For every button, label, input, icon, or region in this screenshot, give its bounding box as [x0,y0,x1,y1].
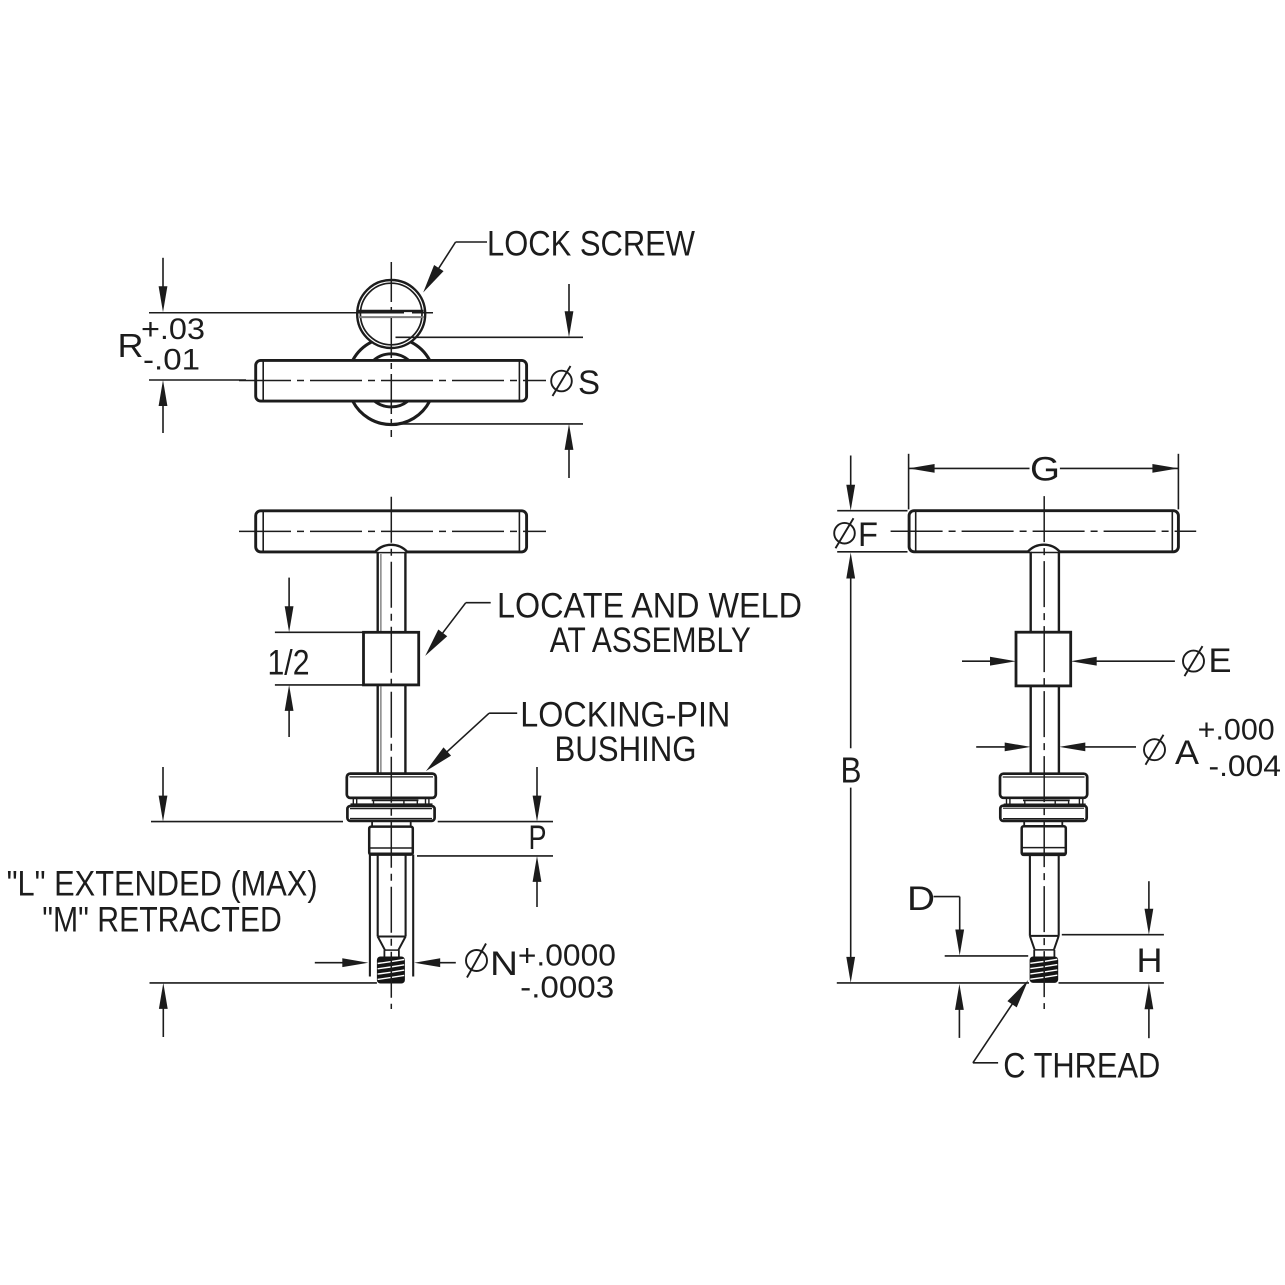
A dimension right arrow [1059,743,1085,752]
F dimension upper arrow [846,485,855,511]
shaft left edge (right view) [1029,686,1031,774]
dimension S lower extension line [395,423,583,425]
collar neck left tick (right view) [1023,821,1025,826]
H dimension lower arrow [1145,983,1154,1009]
bushing top flange (front view) [347,774,436,798]
collar (front view) [369,827,413,855]
locking-pin bushing leader arrowhead [422,747,451,775]
dimension 1/2 upper extension line [275,631,364,633]
sleeve left edge (front view) [369,855,371,977]
sleeve right edge (front view) [412,855,414,977]
svg-text:+.0000: +.0000 [518,938,616,973]
shaft left edge (front view) [377,685,379,774]
lock screw slot lower line [359,316,424,318]
pin taper right (right view) [1054,936,1059,950]
svg-text:B: B [841,750,862,791]
neck right edge (right view) [1058,552,1060,632]
mount plane extension line left [151,821,343,823]
collar neck left tick [371,821,373,827]
pin right edge (front view) [405,855,407,937]
handle bar left end cap (front view) [262,512,264,551]
locking-pin bushing leader [489,712,517,714]
G dimension right extension line [1177,454,1179,510]
D dimension upper extension line [945,955,1028,957]
L dimension lower arrow [159,983,168,1009]
bushing top flange inner edge [350,776,434,778]
svg-text:LOCKING-PIN: LOCKING-PIN [520,696,730,735]
lock screw leader line [456,241,487,243]
svg-text:1/2: 1/2 [268,644,310,683]
top view vertical centerline [390,262,392,437]
handle bar (top view) [256,360,527,401]
pin taper left (front view) [378,937,385,950]
front view vertical centerline [390,497,392,1009]
svg-text:BUSHING: BUSHING [555,730,697,769]
collar neck right tick [410,821,412,827]
collar chamfer lines [370,847,412,849]
bottom baseline (front view) [150,982,377,984]
F dimension diameter symbol [834,523,855,544]
svg-text:A: A [1175,734,1199,772]
pin tip left edge (front view) [383,950,385,956]
neck left edge (right view) [1029,552,1031,632]
bushing lower ring inner lines (right view) [1003,807,1084,809]
E dimension right arrow [1071,657,1097,666]
dimension S upper extension line [396,336,584,338]
neck right edge (front view) [404,552,406,632]
svg-text:+.03: +.03 [141,313,205,346]
neck fillet dome (right view) [1028,545,1060,552]
handle hub inner circle (top view) [374,354,409,407]
neck left edge (front view) [377,552,379,632]
bushing lower ring inner lines [350,808,432,810]
handle bar left end cap (right view) [915,512,917,551]
shaft right edge (right view) [1058,686,1060,774]
threaded tip (right view) [1030,957,1059,983]
svg-text:N: N [490,945,518,983]
N dimension diameter symbol [466,950,487,971]
svg-text:-.01: -.01 [143,344,200,377]
F dimension bar-bottom extension line [837,551,907,553]
pin tip top line (right view) [1034,949,1054,951]
svg-text:"L" EXTENDED (MAX): "L" EXTENDED (MAX) [7,865,318,904]
shaft right edge (front view) [404,685,406,774]
B dimension upper arrow [846,553,855,579]
pin tip right edge (front view) [398,950,400,956]
svg-text:E: E [1209,642,1232,680]
right view handle-bar centerline [891,530,1197,532]
N dimension left arrow [342,958,368,967]
dimension 1/2 upper arrow [285,606,294,632]
P dimension lower arrow [533,856,542,882]
collar chamfer lines (right view) [1023,847,1066,849]
weld block (front view) [364,632,419,685]
lock screw head outer circle [357,280,425,348]
bushing top flange inner edge (right view) [1003,776,1085,778]
P dimension upper arrow [533,796,542,822]
D dimension lower arrow [955,984,964,1010]
pin tip left edge (right view) [1033,950,1035,957]
G dimension right arrowhead [1152,464,1178,473]
dimension R upper arrow [159,286,168,312]
bushing lower ring (front view) [347,806,434,821]
N dimension right arrow [414,958,440,967]
G dimension left arrowhead [909,464,935,473]
pin taper shoulder line (front view) [378,936,406,938]
dimension S lower arrow [565,424,574,450]
G dimension line [909,467,1030,469]
svg-text:S: S [578,364,600,402]
pin tip top line (front view) [384,949,399,951]
collar (right view) [1022,826,1066,855]
neck inner shading line (front view) [380,554,382,631]
handle hub outer circle (top view) [353,342,430,425]
bushing top flange (right view) [1000,774,1087,798]
dimension R lower arrow [159,380,168,406]
handle bar right end cap (front view) [518,512,520,551]
lock screw head inner circle [360,283,422,345]
E dimension left arrow [990,657,1016,666]
D dimension upper arrowhead [955,930,964,956]
D dimension leader [934,896,960,898]
neck fillet dome (front view) [375,545,407,552]
dimension 1/2 lower extension line [275,684,364,686]
svg-text:R: R [118,327,144,364]
dimension S diameter symbol [551,371,572,392]
bushing retaining washer (right view) [1023,799,1070,801]
mount plane extension line right [438,821,553,823]
front view handle-bar centerline [239,530,546,532]
F dimension bar-top extension line [837,510,907,512]
svg-text:P: P [529,819,547,857]
top view handle-bar horizontal centerline [239,380,546,382]
svg-text:-.004: -.004 [1209,750,1282,783]
svg-text:F: F [858,516,878,554]
right view vertical centerline [1043,496,1045,1009]
top view horizontal centerline through lock screw [149,312,433,314]
pin taper shoulder line (right view) [1030,935,1059,937]
svg-text:LOCK SCREW: LOCK SCREW [487,225,695,264]
C thread leader [973,1062,998,1064]
svg-text:+.000: +.000 [1198,714,1275,747]
G dimension left extension line [908,454,910,510]
threaded tip (front view) [377,957,405,984]
bushing lower ring (right view) [1000,806,1086,821]
H dimension upper extension line [1062,934,1164,936]
dimension R extension lower line [149,379,246,381]
shaft inner shading line (front view) [380,686,382,773]
H dimension upper arrow [1145,909,1154,935]
svg-text:-.0003: -.0003 [520,970,614,1005]
lock screw leader arrowhead [418,265,443,295]
locate and weld leader [466,602,491,604]
handle bar right end cap (right view) [1171,512,1173,551]
pin taper right (front view) [399,937,406,950]
pin taper left (right view) [1030,936,1035,950]
A dimension left arrow [1005,743,1031,752]
weld block (right view) [1016,632,1071,686]
svg-text:C THREAD: C THREAD [1003,1047,1160,1086]
pin left edge (right view) [1029,855,1031,936]
lock screw slot upper line [358,310,423,312]
svg-text:H: H [1137,942,1163,980]
svg-text:"M" RETRACTED: "M" RETRACTED [42,901,281,940]
C thread leader arrowhead [1007,977,1032,1007]
handle bar (front view) [256,511,527,552]
pin tip right edge (right view) [1053,950,1055,957]
svg-text:LOCATE AND WELD: LOCATE AND WELD [497,587,802,626]
P dimension extension line [417,855,553,857]
dimension 1/2 lower arrow [285,685,294,711]
collar neck right tick (right view) [1061,821,1063,826]
svg-text:G: G [1030,450,1060,488]
B dimension lower arrow [846,957,855,983]
bottom baseline (right view) [837,982,1029,984]
dimension S upper arrow [565,311,574,337]
handle bar left end cap line (top view) [262,362,264,401]
E dimension diameter symbol [1183,651,1204,672]
bushing retaining washer (front view) [372,799,419,801]
pin left edge (front view) [377,855,379,937]
pin right edge (right view) [1058,855,1060,936]
svg-text:AT ASSEMBLY: AT ASSEMBLY [550,621,751,660]
handle bar right end cap line (top view) [518,362,520,401]
svg-text:D: D [907,880,935,918]
locate and weld leader arrowhead [421,629,447,659]
A dimension diameter symbol [1144,739,1165,760]
handle bar (right view) [909,511,1178,552]
L dimension upper arrow [159,796,168,822]
